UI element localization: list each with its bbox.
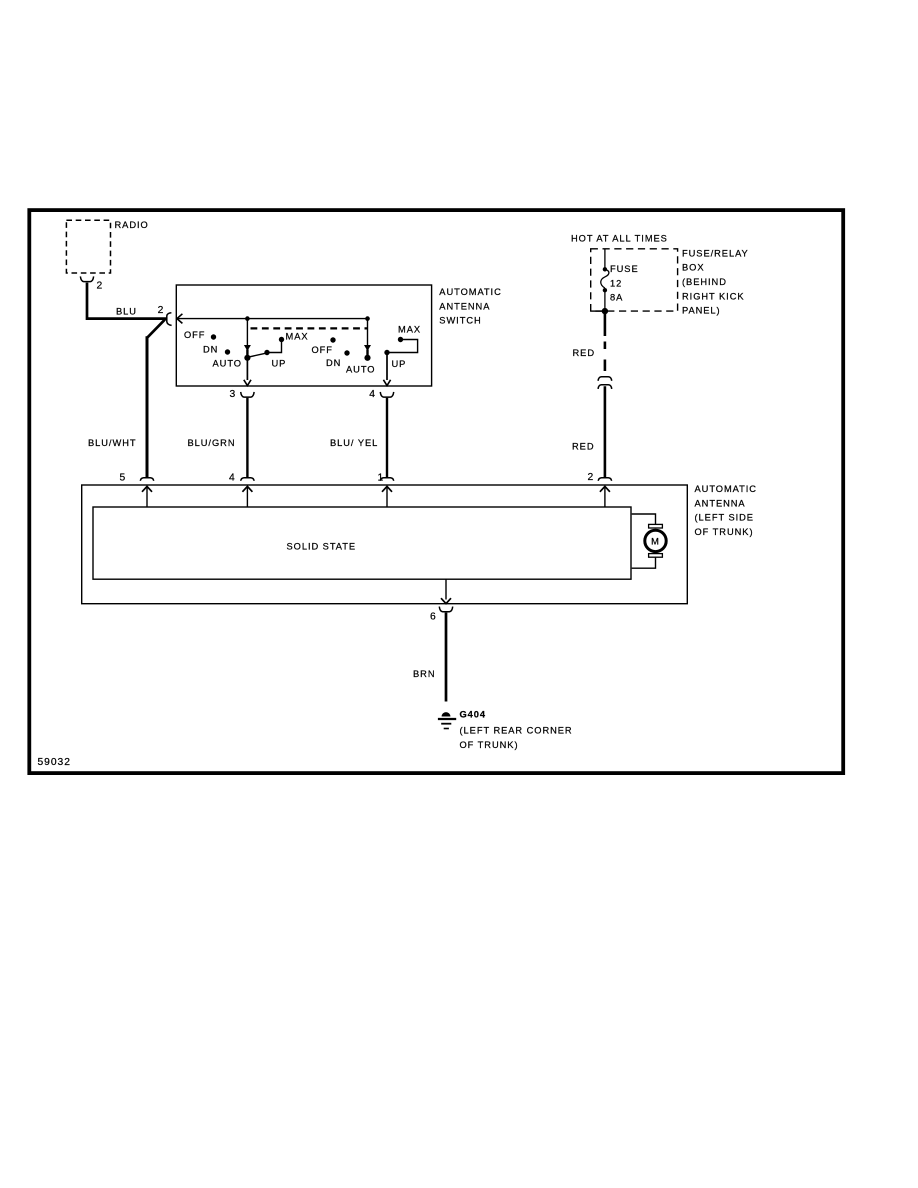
svg-text:RED: RED — [572, 441, 594, 451]
contact OFF left — [184, 330, 216, 340]
svg-text:AUTOMATIC: AUTOMATIC — [439, 287, 501, 297]
label HOT AT ALL TIMES — [571, 233, 668, 243]
antenna pin 5 connector — [120, 473, 154, 484]
wire BRN to ground — [413, 613, 446, 702]
antenna pin 4 connector — [229, 473, 254, 484]
wire to motor bottom — [632, 558, 656, 569]
svg-text:DN: DN — [326, 358, 341, 368]
antenna pin 2 connector — [588, 472, 612, 483]
svg-text:2: 2 — [97, 281, 104, 292]
svg-text:MAX: MAX — [286, 332, 309, 342]
motor M1 circle — [645, 530, 666, 551]
svg-text:(LEFT SIDE: (LEFT SIDE — [695, 513, 754, 523]
svg-text:OFF: OFF — [184, 330, 205, 340]
radio U1 (dashed box) — [66, 220, 148, 273]
svg-text:BRN: BRN — [413, 669, 435, 679]
wire: antenna output to pin 6 — [441, 579, 451, 603]
automatic antenna switch S1 (box) — [176, 285, 501, 386]
wire junction diagonal to BLU/WHT — [147, 319, 165, 337]
svg-text:BLU/WHT: BLU/WHT — [88, 438, 137, 448]
contact MAX left — [279, 332, 309, 343]
svg-text:2: 2 — [158, 305, 165, 316]
wire UP to MAX right — [387, 340, 418, 353]
svg-text:SWITCH: SWITCH — [439, 316, 481, 326]
contact DN left — [203, 344, 230, 354]
diagram number 59032 — [38, 757, 71, 768]
svg-text:12: 12 — [610, 278, 622, 288]
switch wiper right (arrow) — [364, 319, 371, 356]
border frame — [29, 210, 843, 773]
svg-text:G404: G404 — [460, 710, 487, 720]
contact UP left — [264, 350, 286, 369]
svg-text:59032: 59032 — [38, 757, 71, 768]
svg-text:4: 4 — [229, 473, 236, 484]
contact UP right — [384, 350, 406, 369]
switch wiper left (arrow) — [244, 319, 251, 356]
wire common to UP left — [247, 353, 266, 357]
svg-text:(BEHIND: (BEHIND — [682, 277, 727, 287]
wire to motor top — [632, 514, 656, 524]
svg-text:OFF: OFF — [312, 345, 333, 355]
svg-text:5: 5 — [120, 473, 127, 484]
ground G404 — [438, 710, 573, 751]
pin 5 entry arrow — [142, 486, 152, 507]
solid state module (box) — [93, 507, 631, 579]
svg-text:BLU/GRN: BLU/GRN — [188, 438, 236, 448]
contact OFF right — [312, 337, 336, 355]
switch pin 3 connector — [230, 389, 255, 400]
node: fuse output junction — [602, 308, 608, 314]
pin 1 entry arrow — [382, 486, 392, 507]
wire UP to MAX left — [268, 341, 282, 353]
contact AUTO right (common) — [346, 355, 375, 375]
fuse 12 8A — [601, 250, 639, 309]
svg-text:AUTO: AUTO — [213, 358, 242, 368]
switch pin 4 connector — [369, 389, 393, 400]
wire RED upper (dashed continuation) — [573, 311, 605, 371]
wire RED lower — [572, 386, 605, 477]
svg-text:(LEFT REAR CORNER: (LEFT REAR CORNER — [460, 726, 573, 736]
svg-text:UP: UP — [272, 359, 287, 369]
radio pin 2 connector — [80, 276, 103, 291]
pin 4 entry arrow — [242, 486, 252, 507]
svg-text:RIGHT KICK: RIGHT KICK — [682, 291, 745, 301]
svg-text:MAX: MAX — [398, 325, 421, 335]
wire BLU/YEL — [330, 398, 387, 477]
pin 2 entry arrow — [600, 486, 610, 507]
wire break symbol — [598, 377, 612, 389]
svg-text:HOT AT ALL TIMES: HOT AT ALL TIMES — [571, 233, 668, 243]
antenna pin 6 connector — [430, 607, 453, 623]
motor M brush plates — [649, 524, 663, 557]
wire BLU/GRN — [188, 398, 248, 477]
wire BLU from radio to switch — [87, 283, 167, 319]
wire: switch output to pin 3 — [244, 358, 251, 386]
wire: switch output to pin 4 — [383, 353, 390, 386]
svg-text:BOX: BOX — [682, 263, 704, 273]
svg-text:4: 4 — [369, 389, 376, 400]
svg-text:OF TRUNK): OF TRUNK) — [695, 527, 754, 537]
svg-text:AUTOMATIC: AUTOMATIC — [695, 484, 757, 494]
switch pin 2 connector — [158, 305, 183, 326]
svg-text:ANTENNA: ANTENNA — [439, 301, 490, 311]
contact DN right — [326, 350, 350, 368]
svg-text:PANEL): PANEL) — [682, 306, 721, 316]
svg-text:3: 3 — [230, 389, 237, 400]
svg-text:UP: UP — [392, 359, 407, 369]
contact MAX right — [398, 325, 421, 343]
wire BLU/WHT down to antenna pin 5 — [88, 336, 147, 477]
svg-text:AUTO: AUTO — [346, 364, 375, 374]
contact AUTO left (common) — [213, 355, 251, 369]
mechanical coupling dashed link — [251, 327, 368, 329]
node: junction right on bus — [365, 316, 370, 321]
svg-text:SOLID STATE: SOLID STATE — [287, 542, 357, 552]
antenna pin 1 connector — [378, 473, 394, 484]
svg-text:2: 2 — [588, 472, 595, 483]
svg-text:6: 6 — [430, 611, 437, 622]
svg-text:BLU: BLU — [116, 306, 137, 316]
node: junction left on bus — [245, 316, 250, 321]
svg-text:RED: RED — [573, 348, 595, 358]
automatic antenna M1 (box) — [82, 484, 757, 604]
svg-text:ANTENNA: ANTENNA — [695, 498, 746, 508]
fuse/relay box (dashed) — [591, 248, 749, 315]
svg-text:M: M — [651, 537, 660, 547]
svg-text:FUSE/RELAY: FUSE/RELAY — [682, 248, 749, 258]
svg-text:DN: DN — [203, 344, 218, 354]
wire: switch internal top bus — [178, 318, 368, 320]
svg-text:BLU/ YEL: BLU/ YEL — [330, 438, 378, 448]
svg-text:RADIO: RADIO — [115, 220, 149, 230]
svg-text:OF TRUNK): OF TRUNK) — [460, 740, 519, 750]
svg-text:8A: 8A — [610, 293, 623, 303]
svg-text:FUSE: FUSE — [610, 264, 639, 274]
